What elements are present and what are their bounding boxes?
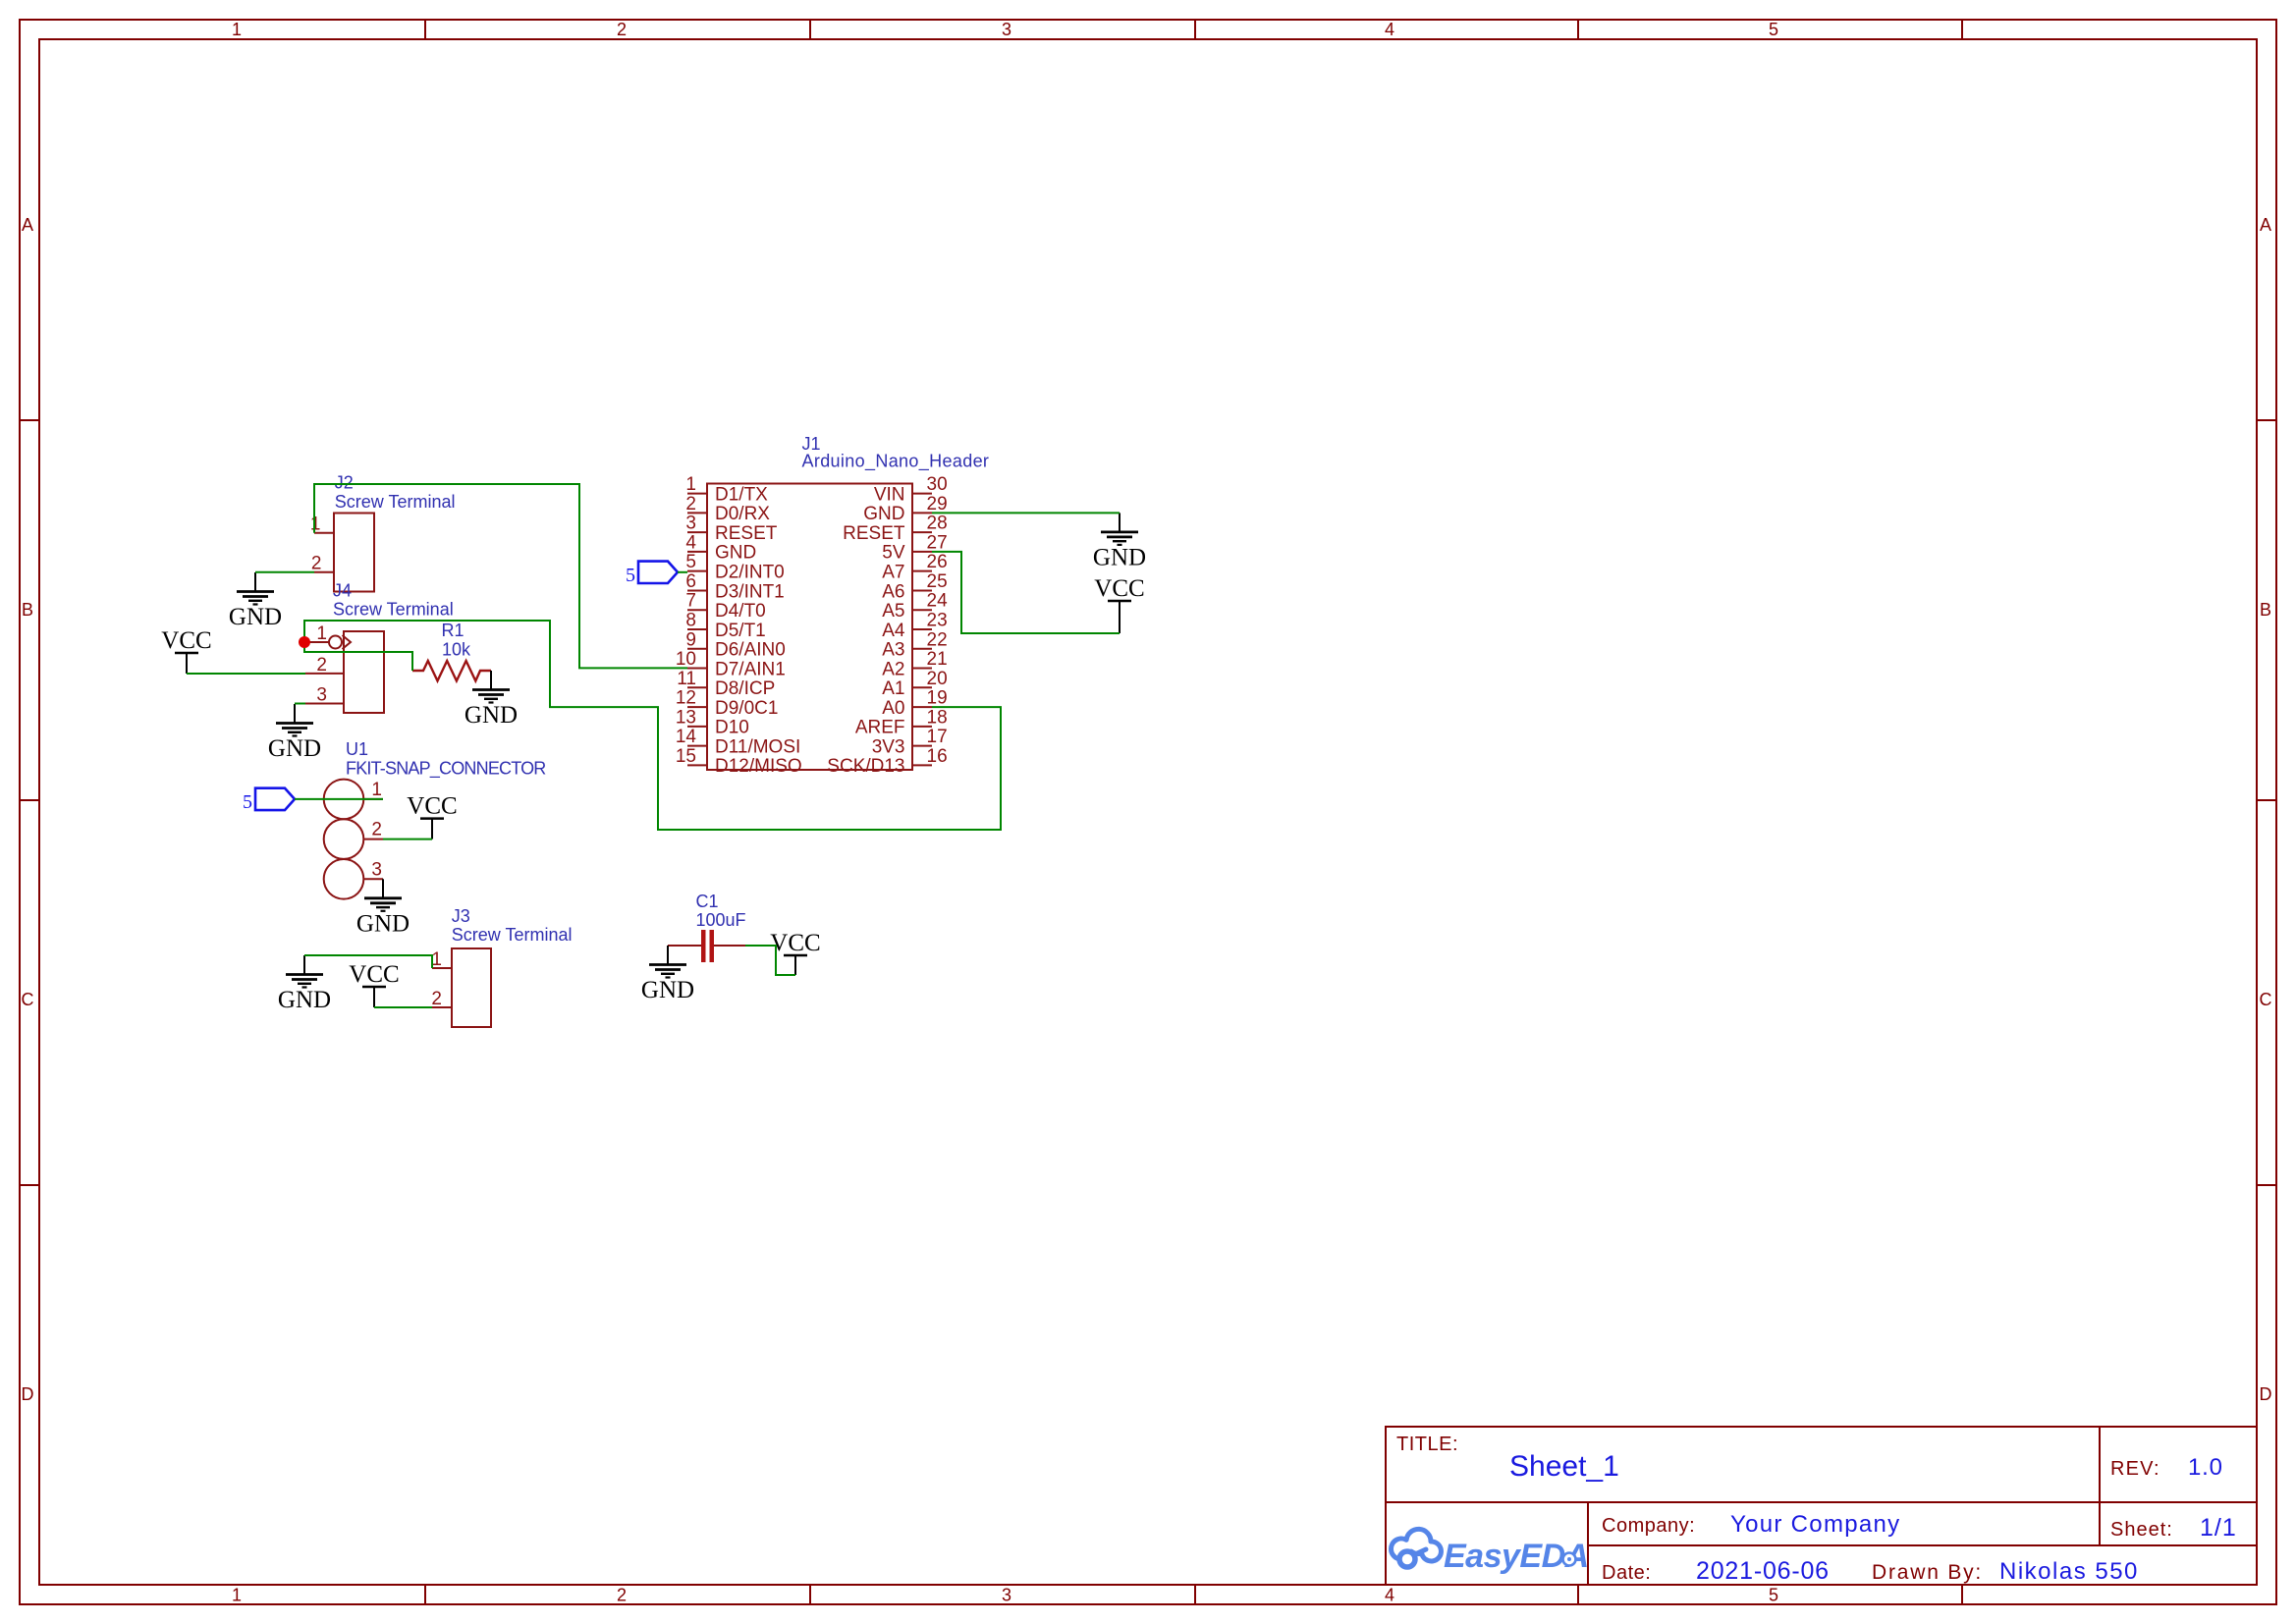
svg-text:Screw Terminal: Screw Terminal	[333, 600, 454, 620]
svg-text:A: A	[2260, 215, 2271, 235]
power flag VCC V4 (J3 pin2)	[349, 961, 399, 1007]
svg-text:2: 2	[431, 989, 442, 1009]
svg-text:AREF: AREF	[855, 718, 905, 738]
power flag VCC V5 (C1)	[770, 930, 820, 975]
svg-text:GND: GND	[465, 702, 518, 729]
wire J1 5V pin27 to VCC	[932, 552, 1120, 633]
svg-text:19: 19	[927, 688, 948, 709]
svg-text:1: 1	[685, 474, 696, 495]
svg-text:28: 28	[927, 514, 948, 534]
svg-text:J3: J3	[452, 906, 470, 926]
svg-text:D3/INT1: D3/INT1	[715, 581, 785, 602]
svg-text:C: C	[22, 990, 34, 1009]
svg-text:18: 18	[927, 707, 948, 728]
wire J4.3 to GND	[295, 703, 305, 705]
svg-text:26: 26	[927, 552, 948, 572]
svg-text:RESET: RESET	[715, 523, 778, 544]
svg-text:Sheet:: Sheet:	[2110, 1519, 2173, 1541]
svg-text:D11/MOSI: D11/MOSI	[715, 736, 800, 757]
svg-text:22: 22	[927, 629, 948, 650]
svg-text:C: C	[2260, 990, 2272, 1009]
svg-text:3: 3	[316, 685, 327, 706]
svg-text:2: 2	[617, 20, 627, 39]
connector J1 Arduino_Nano_Header	[676, 434, 989, 777]
connector J3 Screw Terminal	[431, 906, 572, 1027]
svg-text:5: 5	[1769, 1586, 1778, 1605]
svg-text:GND: GND	[715, 543, 756, 564]
wire VCC to J3.2	[374, 1006, 432, 1008]
title block	[1386, 1427, 2257, 1585]
svg-text:1: 1	[431, 949, 442, 970]
svg-text:A0: A0	[882, 698, 904, 719]
svg-text:R1: R1	[442, 621, 465, 640]
svg-text:VIN: VIN	[874, 484, 905, 505]
svg-text:Nikolas 550: Nikolas 550	[1999, 1558, 2139, 1585]
svg-text:A4: A4	[882, 621, 905, 641]
svg-text:D1/TX: D1/TX	[715, 484, 768, 505]
ground G5 (J3 pin1)	[278, 955, 331, 1013]
svg-text:Arduino_Nano_Header: Arduino_Nano_Header	[802, 452, 990, 472]
svg-text:11: 11	[677, 669, 696, 689]
svg-text:14: 14	[676, 727, 697, 747]
svg-text:VCC: VCC	[161, 627, 211, 654]
svg-text:D: D	[22, 1384, 34, 1404]
svg-text:Sheet_1: Sheet_1	[1509, 1450, 1619, 1483]
wire net 5 flag to U1.1	[295, 798, 383, 800]
wire J1 GND pin29 to ground	[932, 512, 1120, 514]
svg-text:8: 8	[685, 610, 696, 630]
wire GND to J3.1	[304, 955, 432, 968]
svg-text:21: 21	[927, 649, 948, 670]
svg-text:9: 9	[685, 629, 696, 650]
svg-text:A1: A1	[882, 678, 904, 699]
svg-text:Company:: Company:	[1602, 1515, 1695, 1537]
svg-text:GND: GND	[268, 735, 321, 762]
wire J2.2 to GND	[255, 571, 314, 573]
svg-text:SCK/D13: SCK/D13	[827, 756, 904, 777]
svg-text:GND: GND	[278, 987, 331, 1013]
ground G7 (J1 GND pin29)	[1093, 513, 1146, 570]
svg-text:3: 3	[1002, 20, 1011, 39]
svg-text:B: B	[2260, 600, 2271, 620]
svg-text:17: 17	[927, 727, 948, 747]
svg-text:1/1: 1/1	[2200, 1514, 2237, 1542]
svg-text:D4/T0: D4/T0	[715, 601, 766, 622]
svg-text:29: 29	[927, 494, 948, 514]
svg-text:4: 4	[1385, 20, 1394, 39]
svg-text:RESET: RESET	[843, 523, 905, 544]
svg-text:REV:: REV:	[2110, 1458, 2160, 1480]
wire net 5 flag to J1 D2/INT0	[678, 571, 687, 573]
EasyEDA logo	[1391, 1529, 1588, 1575]
svg-text:3: 3	[685, 514, 696, 534]
svg-text:2: 2	[316, 655, 327, 676]
svg-text:D0/RX: D0/RX	[715, 504, 770, 524]
svg-text:B: B	[22, 600, 33, 620]
svg-text:2: 2	[617, 1586, 627, 1605]
wire U1.2 to VCC	[383, 839, 432, 840]
svg-text:27: 27	[927, 532, 948, 553]
svg-text:1: 1	[371, 780, 382, 800]
ground G1 (J2 pin2)	[229, 572, 282, 630]
capacitor C1 100uF	[668, 892, 746, 962]
svg-text:2021-06-06: 2021-06-06	[1696, 1557, 1830, 1585]
svg-text:10: 10	[676, 649, 696, 670]
svg-text:5: 5	[243, 791, 252, 813]
svg-text:1: 1	[316, 623, 327, 644]
connector J4 Screw Terminal	[305, 581, 454, 714]
net flag 5 (at U1 pin1)	[243, 788, 295, 813]
connector J2 Screw Terminal	[310, 473, 456, 592]
svg-text:A7: A7	[882, 562, 904, 582]
net flag 5 (at J1 pin5 D2/INT0)	[626, 562, 678, 586]
connector U1 FKIT-SNAP_CONNECTOR	[324, 739, 547, 899]
svg-text:Your Company: Your Company	[1730, 1511, 1900, 1538]
ground G3 (R1)	[465, 671, 518, 729]
svg-text:6: 6	[685, 571, 696, 592]
svg-text:4: 4	[1385, 1586, 1394, 1605]
svg-text:GND: GND	[863, 504, 904, 524]
svg-text:Drawn By:: Drawn By:	[1872, 1561, 1983, 1584]
power flag VCC V3 (U1 pin2)	[407, 793, 457, 839]
svg-text:A2: A2	[882, 659, 904, 679]
svg-text:D6/AIN0: D6/AIN0	[715, 640, 786, 661]
ground G6 (C1)	[641, 946, 694, 1003]
svg-text:D2/INT0: D2/INT0	[715, 562, 785, 582]
resistor R1 10k	[412, 621, 491, 681]
svg-text:20: 20	[927, 669, 948, 689]
svg-text:FKIT-SNAP_CONNECTOR: FKIT-SNAP_CONNECTOR	[346, 759, 546, 780]
svg-text:1: 1	[310, 514, 321, 535]
svg-text:24: 24	[927, 591, 949, 612]
svg-text:5: 5	[685, 552, 696, 572]
svg-text:D10: D10	[715, 718, 749, 738]
svg-text:A: A	[22, 215, 33, 235]
wire VCC to J4.2	[187, 673, 305, 675]
svg-text:5V: 5V	[882, 543, 905, 564]
svg-text:3: 3	[371, 859, 382, 880]
wire J2.1 to J1 D7/AIN1	[314, 484, 687, 668]
svg-text:13: 13	[676, 707, 696, 728]
wire J4.1 net to J1 A0	[304, 621, 1001, 830]
svg-text:5: 5	[1769, 20, 1778, 39]
svg-text:Screw Terminal: Screw Terminal	[452, 925, 573, 945]
svg-text:A3: A3	[882, 640, 904, 661]
svg-text:4: 4	[685, 532, 696, 553]
svg-text:Date:: Date:	[1602, 1562, 1651, 1584]
svg-text:GND: GND	[1093, 544, 1146, 570]
svg-text:2: 2	[685, 494, 696, 514]
svg-text:A6: A6	[882, 581, 904, 602]
svg-text:23: 23	[927, 610, 948, 630]
svg-text:D5/T1: D5/T1	[715, 621, 766, 641]
svg-text:D12/MISO: D12/MISO	[715, 756, 802, 777]
svg-text:12: 12	[676, 688, 696, 709]
svg-text:3: 3	[1002, 1586, 1011, 1605]
power flag VCC V1 (left)	[161, 627, 211, 674]
svg-text:A5: A5	[882, 601, 904, 622]
svg-text:D8/ICP: D8/ICP	[715, 678, 775, 699]
svg-text:U1: U1	[346, 739, 368, 759]
svg-text:GND: GND	[641, 977, 694, 1003]
svg-text:2: 2	[371, 820, 382, 840]
svg-text:5: 5	[626, 565, 635, 586]
svg-text:30: 30	[927, 474, 948, 495]
svg-text:VCC: VCC	[770, 930, 820, 956]
svg-text:7: 7	[685, 591, 696, 612]
svg-text:2: 2	[311, 554, 322, 574]
svg-text:25: 25	[927, 571, 948, 592]
svg-text:3V3: 3V3	[872, 736, 905, 757]
wire C1 right to VCC	[745, 946, 795, 975]
svg-text:VCC: VCC	[1094, 575, 1144, 602]
svg-text:1: 1	[232, 1586, 242, 1605]
svg-text:D: D	[2260, 1384, 2272, 1404]
svg-text:J4: J4	[333, 581, 352, 601]
svg-text:10k: 10k	[442, 640, 471, 660]
svg-text:C1: C1	[696, 892, 719, 911]
svg-text:D7/AIN1: D7/AIN1	[715, 659, 786, 679]
ground G4 (U1 pin3)	[356, 879, 410, 937]
svg-text:GND: GND	[356, 910, 410, 937]
svg-text:Screw Terminal: Screw Terminal	[335, 492, 456, 512]
svg-text:J2: J2	[335, 473, 354, 493]
svg-text:GND: GND	[229, 604, 282, 630]
svg-text:16: 16	[927, 746, 948, 767]
svg-text:15: 15	[676, 746, 696, 767]
svg-text:1: 1	[232, 20, 242, 39]
svg-text:D9/0C1: D9/0C1	[715, 698, 778, 719]
svg-text:1.0: 1.0	[2188, 1454, 2223, 1481]
svg-text:100uF: 100uF	[696, 910, 746, 930]
svg-text:VCC: VCC	[407, 793, 457, 820]
ground G2 (J4 pin3)	[268, 704, 321, 762]
wire J4.1 net to R1	[304, 642, 412, 671]
svg-text:VCC: VCC	[349, 961, 399, 988]
power flag VCC V2 (J1 5V)	[1094, 575, 1144, 633]
svg-text:TITLE:: TITLE:	[1396, 1434, 1458, 1455]
junction J4.1	[299, 636, 310, 648]
